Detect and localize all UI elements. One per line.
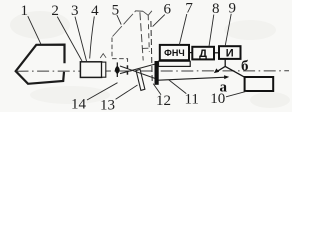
leader 3	[75, 17, 87, 61]
svg-text:ФНЧ: ФНЧ	[164, 48, 185, 58]
leader 1	[28, 16, 41, 44]
svg-text:4: 4	[91, 3, 99, 19]
recorder box 10	[245, 77, 274, 91]
leader 4	[90, 16, 95, 58]
LPF block (FNCh)	[160, 45, 189, 60]
svg-text:7: 7	[185, 1, 193, 17]
disk outline upper: right slant	[143, 11, 148, 15]
leader 2	[57, 17, 82, 61]
small dash between V1 V2	[142, 47, 148, 49]
leader 10	[226, 91, 247, 97]
svg-text:1: 1	[21, 3, 29, 19]
leader 6	[153, 15, 165, 27]
lens mount line	[116, 62, 118, 77]
leader 11	[169, 80, 187, 94]
wire b to recorder	[225, 66, 244, 77]
modulator right section 4	[102, 62, 106, 77]
disk edge line V2	[148, 15, 149, 52]
svg-text:И: И	[226, 47, 234, 59]
svg-text:13: 13	[100, 97, 115, 112]
svg-text:5: 5	[112, 3, 120, 19]
disk outline upper: left slant	[113, 10, 137, 36]
chopper plate 13 (tilted)	[136, 69, 145, 90]
image plane dashed line 6/12 (V3)	[151, 21, 152, 82]
wire D-I	[214, 52, 219, 54]
indicator block I	[219, 46, 241, 59]
svg-text:3: 3	[71, 3, 79, 19]
signal line a	[159, 77, 226, 80]
leader 12	[153, 84, 161, 95]
arrowhead a	[224, 75, 229, 79]
ray crossing to detector	[120, 66, 155, 78]
svg-text:12: 12	[156, 93, 171, 109]
svg-text:9: 9	[228, 1, 236, 17]
leader 14	[87, 83, 118, 100]
svg-text:11: 11	[184, 91, 198, 107]
leader 8	[209, 15, 214, 47]
slit jaws	[127, 65, 129, 68]
svg-text:6: 6	[164, 1, 172, 17]
svg-text:2: 2	[51, 3, 59, 19]
svg-text:14: 14	[71, 97, 87, 112]
svg-text:б: б	[241, 58, 249, 74]
laser housing 1 (pentagon)	[16, 45, 65, 84]
photodetector housing 11	[159, 61, 191, 66]
leader 9	[225, 14, 231, 46]
wire from I down	[217, 59, 226, 72]
svg-text:Д: Д	[199, 48, 207, 60]
leader 13	[116, 85, 138, 99]
lens 14 (filled)	[115, 66, 120, 75]
leader 7	[179, 14, 187, 45]
ray	[120, 64, 155, 74]
modulator box 2/3	[80, 62, 101, 78]
optical axis (dash-dot)	[17, 70, 290, 72]
detector block D	[192, 47, 214, 60]
arrowhead at axis	[214, 68, 219, 73]
small chevron mark	[100, 54, 106, 58]
dashed enclosure around lens unit	[112, 38, 128, 65]
svg-text:а: а	[220, 79, 228, 95]
disk outline: tick	[148, 11, 152, 16]
wire FNCh-D	[189, 52, 192, 54]
photodetector bar 12	[155, 61, 159, 85]
svg-text:8: 8	[212, 1, 220, 17]
disk edge line V1 (dashed vertical)	[140, 12, 143, 60]
disk outline upper: top bar	[136, 10, 143, 12]
leader 5	[117, 15, 121, 25]
